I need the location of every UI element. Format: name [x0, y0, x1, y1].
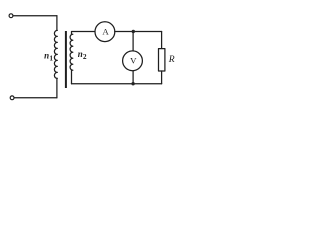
wire top primary horizontal: [13, 15, 57, 17]
ammeter A1: [95, 22, 115, 42]
node bottom junction: [131, 82, 134, 85]
resistor R: [159, 49, 165, 71]
svg-text:n2: n2: [78, 49, 87, 61]
inductor secondary coil n2: [70, 34, 73, 70]
wire secondary top lead: [72, 32, 95, 35]
wire resistor to bottom rail: [161, 71, 163, 84]
voltmeter V1: [123, 51, 143, 71]
svg-text:R: R: [168, 54, 175, 65]
inductor primary coil n1: [54, 30, 57, 78]
transformer core: [65, 31, 67, 88]
svg-text:A: A: [102, 27, 109, 37]
node top junction: [132, 30, 135, 33]
wire voltmeter bottom branch: [132, 71, 134, 84]
wire bottom primary horizontal: [14, 97, 57, 99]
wire right rail down to resistor: [161, 32, 163, 49]
wire secondary bottom lead: [71, 70, 73, 84]
terminal top-left: [9, 14, 13, 18]
wire ammeter to top junction: [115, 31, 162, 33]
terminal bottom-left: [10, 96, 14, 100]
wire primary top vertical: [56, 16, 58, 31]
svg-text:V: V: [130, 56, 137, 66]
wire primary bottom vertical: [56, 78, 58, 97]
svg-text:n1: n1: [44, 51, 53, 63]
wire voltmeter top branch: [132, 32, 134, 51]
wire bottom rail: [72, 83, 162, 85]
